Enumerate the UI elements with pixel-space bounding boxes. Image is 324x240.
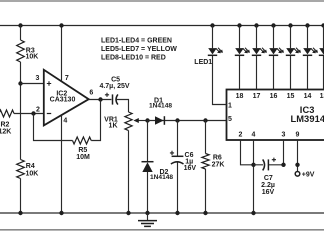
resistor R2 (0, 110, 14, 117)
svg-text:12K: 12K (0, 129, 11, 136)
wire: pin 4 to ground (61, 115, 63, 213)
LED4 (271, 23, 275, 27)
svg-text:LM3914: LM3914 (290, 114, 324, 124)
svg-text:18: 18 (236, 93, 244, 100)
resistor R4 (17, 160, 25, 179)
svg-text:27K: 27K (212, 162, 225, 169)
svg-text:6: 6 (89, 90, 93, 97)
wire: pin 2 to pin 4 jog (241, 140, 254, 165)
svg-text:10K: 10K (26, 171, 39, 178)
svg-text:1K: 1K (109, 123, 118, 130)
svg-text:+9V: +9V (302, 172, 315, 179)
LED1 (210, 23, 214, 27)
capacitor C7 (254, 164, 284, 166)
node: rail/divider junction (18, 23, 22, 27)
svg-text:10K: 10K (26, 54, 39, 61)
svg-text:R2: R2 (1, 121, 10, 128)
LED6 (305, 23, 309, 27)
svg-text:1N4148: 1N4148 (149, 103, 172, 110)
resistor R5 (73, 137, 92, 144)
svg-text:16V: 16V (262, 189, 275, 196)
svg-text:LED8-LED10 = RED: LED8-LED10 = RED (101, 54, 166, 61)
node: divider bottom to ground (18, 211, 22, 215)
wire: +V top rail (0, 25, 324, 27)
capacitor C5 (112, 94, 114, 104)
wire: feedback loop (34, 100, 101, 141)
node: R6 junction (203, 118, 207, 122)
svg-text:13: 13 (320, 93, 324, 100)
svg-text:CA3130: CA3130 (50, 97, 76, 104)
svg-text:2: 2 (36, 106, 40, 113)
wire: pin 7 supply (61, 26, 63, 82)
node: output junction (98, 97, 102, 101)
LED5 (288, 23, 292, 27)
svg-text:R4: R4 (26, 163, 35, 170)
svg-text:17: 17 (253, 93, 261, 100)
wire: pin 4 to ground (253, 140, 255, 213)
LED2 (237, 23, 241, 27)
svg-text:3: 3 (36, 75, 40, 82)
svg-text:4: 4 (252, 132, 256, 139)
svg-text:3: 3 (282, 132, 286, 139)
svg-text:16: 16 (270, 93, 278, 100)
terminal +9V (295, 172, 300, 177)
node: divider junction to pin 3 (18, 81, 22, 85)
svg-text:1: 1 (228, 103, 232, 110)
svg-text:14: 14 (304, 93, 312, 100)
frame bottom border (0, 229, 324, 231)
svg-text:7: 7 (65, 75, 69, 82)
wire: pin 2 input (14, 113, 44, 115)
svg-text:1N4148: 1N4148 (150, 174, 173, 181)
wire: VR1 bottom to ground (128, 131, 130, 214)
svg-text:16V: 16V (184, 165, 197, 172)
wire: pin 3 input (21, 83, 45, 85)
wire: divider chain verticals (R3/R4 branch) (20, 26, 22, 214)
capacitor C6 (177, 121, 179, 157)
svg-text:9: 9 (296, 132, 300, 139)
node: C6 junction (175, 118, 179, 122)
node: inverting input junction (31, 111, 35, 115)
wire: ground bottom rail (0, 212, 324, 214)
wire: pin 9 down to +9V (297, 140, 299, 172)
svg-text:2: 2 (239, 132, 243, 139)
diode D2 1N4148 (147, 121, 149, 214)
ground (147, 213, 149, 221)
svg-text:LED1-LED4 = GREEN: LED1-LED4 = GREEN (101, 37, 172, 44)
svg-text:LED1: LED1 (194, 59, 212, 66)
resistor R3 (17, 40, 25, 62)
svg-text:C7: C7 (264, 175, 273, 182)
wire: VR1 wiper (136, 120, 151, 122)
wire: C5 to VR1 top (117, 100, 129, 113)
svg-text:15: 15 (287, 93, 295, 100)
LED7 (321, 23, 324, 27)
svg-text:4: 4 (63, 118, 67, 125)
node: wiper/D2 junction (145, 118, 149, 122)
diode D1 1N4148 (155, 116, 164, 125)
IC U2 IC3 LM3914 (227, 90, 324, 141)
LED3 (254, 23, 258, 27)
potentiometer VR1 (125, 112, 132, 131)
svg-text:5: 5 (228, 116, 232, 123)
op-amp U1 IC2 CA3130 (44, 70, 89, 126)
wire: pin 3 down (283, 140, 285, 165)
svg-text:10M: 10M (76, 154, 90, 161)
wire: signal line to pin 5 (148, 120, 227, 122)
svg-text:4.7µ, 25V: 4.7µ, 25V (99, 83, 129, 90)
frame top border (0, 0, 324, 2)
resistor R6 (205, 121, 207, 214)
svg-text:LED5-LED7 = YELLOW: LED5-LED7 = YELLOW (101, 46, 177, 53)
wire: output pin 6 (89, 99, 112, 101)
svg-text:2.2µ: 2.2µ (261, 182, 275, 189)
